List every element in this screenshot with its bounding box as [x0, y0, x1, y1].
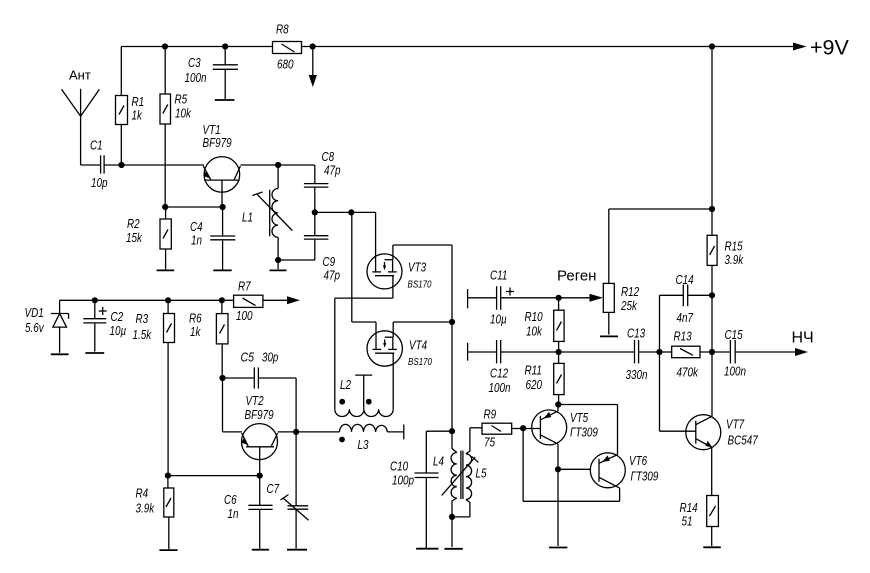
wire VT7 collector: [711, 352, 713, 416]
transistor VT5: [532, 410, 598, 445]
wire tank to gates: [315, 211, 376, 213]
svg-text:C7: C7: [267, 481, 280, 496]
svg-text:BS170: BS170: [408, 280, 432, 291]
svg-text:+9V: +9V: [810, 36, 850, 60]
svg-text:10k: 10k: [526, 324, 543, 339]
svg-text:VT2: VT2: [246, 393, 265, 408]
transistor VT2: [241, 393, 278, 476]
node R8 right: [310, 43, 316, 49]
terminal C11 input: [468, 289, 497, 308]
node L4 bottom: [449, 514, 455, 520]
capacitor C14: [660, 272, 713, 325]
node C2 top: [92, 297, 98, 303]
transistor VT1: [203, 122, 241, 207]
svg-text:10µ: 10µ: [110, 323, 127, 338]
wire VT3 drain: [393, 244, 452, 246]
svg-text:C3: C3: [188, 55, 201, 70]
svg-text:Реген: Реген: [557, 268, 596, 285]
svg-text:51: 51: [682, 514, 693, 529]
wire L1 to C9: [278, 259, 315, 261]
inductor L4 variable: [433, 431, 478, 517]
inductor L1 variable: [242, 165, 292, 260]
svg-text:BF979: BF979: [203, 135, 232, 150]
phasing dot L2 right: [366, 399, 372, 405]
svg-text:3.9k: 3.9k: [136, 501, 156, 516]
resistor R2: [126, 207, 171, 270]
capacitor C4: [190, 207, 235, 270]
capacitor C3: [185, 47, 238, 100]
arrow into R12 wiper: [590, 294, 604, 302]
transistor VT6: [590, 453, 658, 488]
wire VT2 emitter riser: [223, 378, 242, 432]
capacitor C15: [724, 327, 795, 379]
capacitor C12: [489, 340, 635, 395]
svg-text:100: 100: [236, 308, 253, 323]
svg-text:10µ: 10µ: [490, 312, 507, 327]
НЧ output arrow: [792, 330, 814, 357]
capacitor C7 variable: [267, 432, 309, 549]
phasing dot L3: [339, 437, 345, 443]
capacitor C1: [81, 138, 122, 191]
capacitor C11: [490, 268, 590, 327]
capacitor C6: [224, 476, 273, 549]
wire VT1 collector to L1: [240, 164, 314, 166]
transformer core L4/L5: [461, 451, 463, 499]
svg-text:100n: 100n: [489, 380, 511, 395]
resistor R10: [525, 298, 565, 352]
svg-text:680: 680: [277, 57, 294, 72]
svg-text:R3: R3: [136, 311, 149, 326]
wire base riser: [522, 428, 524, 501]
potentiometer R12: [603, 209, 639, 335]
capacitor C5: [223, 350, 297, 432]
capacitor C8: [304, 149, 341, 236]
node R6 top: [219, 297, 225, 303]
node VT2 base: [257, 473, 263, 479]
node R9/VT5 base: [520, 425, 526, 431]
capacitor C13: [626, 326, 672, 383]
resistor R8: [273, 22, 302, 72]
wire top rail right: [302, 46, 794, 48]
wire VT5 collector to VT6 base: [558, 468, 590, 470]
wire emitter rail: [558, 405, 617, 455]
svg-text:15k: 15k: [126, 230, 143, 245]
resistor R14: [680, 448, 719, 547]
mosfet VT4: [352, 212, 433, 409]
svg-text:VT7: VT7: [726, 417, 745, 432]
ground R4: [159, 549, 177, 551]
svg-text:ГТ309: ГТ309: [631, 469, 659, 484]
node VT1 base row left: [162, 204, 168, 210]
svg-text:C14: C14: [676, 272, 694, 287]
ground C4: [213, 269, 231, 271]
svg-text:3.9k: 3.9k: [725, 252, 745, 267]
svg-text:L2: L2: [340, 377, 352, 392]
ground L4: [444, 517, 462, 549]
svg-text:L4: L4: [433, 454, 444, 469]
svg-text:ГТ309: ГТ309: [570, 425, 598, 440]
node C11/R10: [556, 295, 562, 301]
svg-text:BC547: BC547: [728, 433, 759, 448]
ground R12: [600, 335, 618, 337]
wire C14 left riser: [660, 295, 696, 431]
wire regulator rail: [60, 299, 234, 301]
inductor L2: [335, 298, 393, 416]
resistor R11: [525, 352, 565, 405]
svg-text:75: 75: [484, 435, 496, 450]
wire VT3 source: [335, 297, 393, 299]
ground C2: [85, 352, 104, 354]
svg-text:R11: R11: [525, 363, 542, 378]
wire VT6 collector down: [619, 488, 621, 501]
ground C6: [252, 549, 269, 551]
svg-text:R2: R2: [127, 216, 140, 231]
svg-text:C15: C15: [725, 327, 744, 342]
node C13/R13/C14: [656, 349, 662, 355]
svg-text:1k: 1k: [190, 324, 202, 339]
+9V supply arrow: [793, 36, 850, 60]
node R13/C15: [709, 349, 715, 355]
svg-text:470k: 470k: [677, 365, 700, 380]
node VT1 base row right: [220, 204, 226, 210]
svg-text:100p: 100p: [392, 473, 414, 488]
node L4 top: [449, 428, 455, 434]
svg-text:10p: 10p: [91, 175, 108, 190]
svg-text:330n: 330n: [626, 367, 648, 382]
ground VT5/VT6: [549, 469, 568, 547]
node C14 right: [709, 292, 715, 298]
ground VD1: [51, 353, 69, 355]
svg-text:C13: C13: [627, 326, 646, 341]
wire R15 bottom to audio node: [711, 295, 713, 352]
svg-text:VD1: VD1: [25, 305, 44, 320]
node R6/C5: [219, 375, 225, 381]
svg-text:R10: R10: [525, 309, 544, 324]
wire base row: [165, 206, 222, 208]
node R3/R4: [165, 473, 171, 479]
svg-text:C11: C11: [490, 268, 507, 283]
svg-text:C1: C1: [90, 138, 103, 153]
node L1 bottom: [275, 257, 281, 263]
wire feedback rail bottom: [523, 500, 620, 502]
svg-text:1n: 1n: [228, 506, 239, 521]
wire VT2 base row: [168, 475, 260, 477]
ground R2: [157, 269, 175, 271]
wire R12 top rail: [609, 208, 712, 210]
ground C3: [215, 99, 235, 101]
ground C7: [287, 549, 307, 551]
resistor R1: [116, 47, 145, 166]
wire drain trunk down: [451, 245, 453, 431]
node C1/R1: [118, 162, 124, 168]
svg-text:C2: C2: [111, 309, 124, 324]
svg-text:C10: C10: [390, 459, 409, 474]
wire top rail left: [121, 46, 272, 48]
svg-text:Ант: Ант: [69, 68, 91, 83]
svg-text:L1: L1: [242, 210, 253, 225]
svg-text:VT3: VT3: [408, 260, 427, 275]
node L1 top: [275, 162, 281, 168]
resistor R7: [234, 279, 263, 324]
svg-text:C12: C12: [490, 366, 509, 381]
svg-text:47p: 47p: [324, 163, 341, 178]
svg-text:VT5: VT5: [570, 410, 589, 425]
svg-text:L3: L3: [358, 437, 370, 452]
node R11 bottom: [555, 401, 561, 407]
terminal C12 input: [468, 343, 497, 361]
inductor L3: [340, 424, 404, 452]
node VT5 collector: [555, 466, 561, 472]
capacitor C2: [83, 300, 126, 351]
svg-text:1n: 1n: [191, 233, 202, 248]
resistor R15: [707, 47, 744, 296]
capacitor C9: [304, 236, 340, 283]
svg-text:4n7: 4n7: [677, 310, 694, 325]
supply branch arrow down: [309, 47, 317, 88]
svg-text:НЧ: НЧ: [792, 330, 814, 347]
resistor R9: [470, 407, 541, 450]
svg-text:47p: 47p: [324, 268, 341, 283]
svg-text:R5: R5: [175, 92, 188, 107]
svg-text:BF979: BF979: [245, 407, 274, 422]
arrow after R7: [263, 296, 300, 304]
svg-text:5.6v: 5.6v: [25, 320, 45, 335]
svg-text:25k: 25k: [620, 298, 638, 313]
svg-text:1k: 1k: [132, 108, 144, 123]
wire C1 to VT1 emitter: [122, 164, 205, 166]
resistor R3: [133, 300, 175, 475]
svg-text:620: 620: [526, 377, 543, 392]
inductor L5: [452, 428, 487, 517]
phasing dot L2 left: [339, 399, 345, 405]
capacitor C10: [390, 431, 452, 548]
svg-text:30p: 30p: [262, 350, 278, 365]
svg-text:C5: C5: [241, 350, 255, 365]
resistor R5: [160, 47, 192, 208]
node C12/R10/R11: [556, 349, 562, 355]
resistor R13: [672, 329, 731, 380]
svg-text:R12: R12: [621, 284, 640, 299]
wire VT4 drain: [393, 321, 452, 323]
node VT4 drain: [449, 319, 455, 325]
node C8/C9: [312, 209, 318, 215]
node R15 column top: [709, 206, 715, 212]
transistor VT7: [686, 415, 758, 450]
svg-text:R7: R7: [238, 279, 251, 294]
svg-text:BS170: BS170: [408, 357, 432, 368]
node R3 top: [165, 297, 171, 303]
ground C10: [416, 548, 438, 550]
svg-text:C6: C6: [224, 492, 237, 507]
node collector/C5/C7: [293, 429, 299, 435]
svg-text:VT6: VT6: [629, 453, 648, 468]
svg-text:R13: R13: [674, 329, 693, 344]
svg-text:L5: L5: [476, 466, 488, 481]
resistor R6: [189, 300, 228, 378]
svg-text:R9: R9: [484, 407, 497, 422]
svg-text:100n: 100n: [185, 70, 207, 85]
node +9V column: [709, 43, 715, 49]
zener diode VD1: [25, 300, 69, 353]
node gate branch: [348, 209, 354, 215]
mosfet VT3: [367, 212, 432, 298]
ground L1: [270, 260, 287, 270]
svg-text:R8: R8: [276, 22, 289, 37]
svg-text:VT4: VT4: [409, 338, 427, 353]
wire VT2 collector: [278, 431, 340, 433]
svg-text:10k: 10k: [175, 106, 192, 121]
wire VT5 collector down: [557, 444, 559, 469]
svg-text:R4: R4: [136, 486, 149, 501]
wire VT5 emitter up: [557, 405, 559, 411]
resistor R4: [136, 476, 174, 549]
antenna Ант: [62, 68, 100, 166]
svg-text:1.5k: 1.5k: [133, 327, 153, 342]
node C3 top: [222, 43, 228, 49]
svg-text:100n: 100n: [724, 364, 746, 379]
ground R14: [703, 546, 721, 548]
node R5 top: [162, 43, 168, 49]
